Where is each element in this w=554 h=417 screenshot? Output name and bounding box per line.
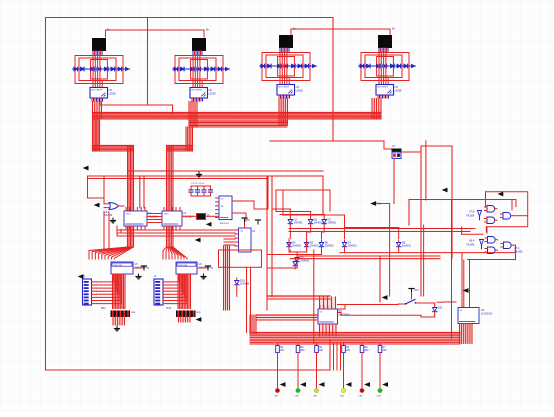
svg-text:5V: 5V xyxy=(211,268,214,270)
svg-text:74LS08: 74LS08 xyxy=(466,215,475,218)
svg-text:L293D: L293D xyxy=(395,89,402,92)
svg-text:1N4001: 1N4001 xyxy=(310,244,320,248)
svg-text:MOTORDRV: MOTORDRV xyxy=(278,87,290,89)
svg-text:L293D: L293D xyxy=(296,89,303,92)
svg-text:74HC595: 74HC595 xyxy=(178,265,188,267)
svg-text:L293D: L293D xyxy=(209,92,216,95)
svg-text:D11: D11 xyxy=(438,306,443,310)
svg-text:MOTORDRV: MOTORDRV xyxy=(377,87,389,89)
svg-text:LED: LED xyxy=(359,396,364,398)
svg-text:74LS: 74LS xyxy=(164,214,170,216)
svg-text:VCC: VCC xyxy=(414,290,419,292)
svg-text:74HC595: 74HC595 xyxy=(113,265,123,267)
svg-text:1N4148: 1N4148 xyxy=(240,282,250,286)
svg-text:74LS32: 74LS32 xyxy=(104,214,113,217)
svg-text:ULN2003A: ULN2003A xyxy=(481,313,493,316)
svg-text:1N4001: 1N4001 xyxy=(348,244,358,248)
svg-text:C1 C2 C3 C4: C1 C2 C3 C4 xyxy=(191,183,205,185)
svg-text:LED: LED xyxy=(313,396,318,398)
svg-text:MOTORDRV: MOTORDRV xyxy=(91,90,103,92)
svg-text:89C2051: 89C2051 xyxy=(220,223,230,225)
svg-text:U7:B: U7:B xyxy=(469,211,475,214)
svg-text:MOTORDRV: MOTORDRV xyxy=(191,90,203,92)
svg-text:L293D: L293D xyxy=(109,92,116,95)
svg-text:5V: 5V xyxy=(147,268,150,270)
svg-text:LED: LED xyxy=(274,396,279,398)
svg-text:1N4001: 1N4001 xyxy=(325,244,335,248)
svg-text:RN2: RN2 xyxy=(167,308,172,310)
svg-text:U8:A: U8:A xyxy=(469,240,475,243)
svg-text:5V: 5V xyxy=(247,220,250,222)
svg-text:LED: LED xyxy=(295,396,300,398)
svg-text:74LS08: 74LS08 xyxy=(514,251,523,254)
svg-text:1N4001: 1N4001 xyxy=(402,244,412,248)
svg-text:1N4001: 1N4001 xyxy=(327,221,337,225)
svg-text:LED: LED xyxy=(377,396,382,398)
svg-text:1N4001: 1N4001 xyxy=(294,221,304,225)
svg-text:74LS: 74LS xyxy=(126,214,132,216)
svg-text:LED: LED xyxy=(340,396,345,398)
svg-text:74LS08: 74LS08 xyxy=(466,244,475,247)
svg-text:RN1: RN1 xyxy=(101,308,106,310)
svg-text:1N4001: 1N4001 xyxy=(292,244,302,248)
